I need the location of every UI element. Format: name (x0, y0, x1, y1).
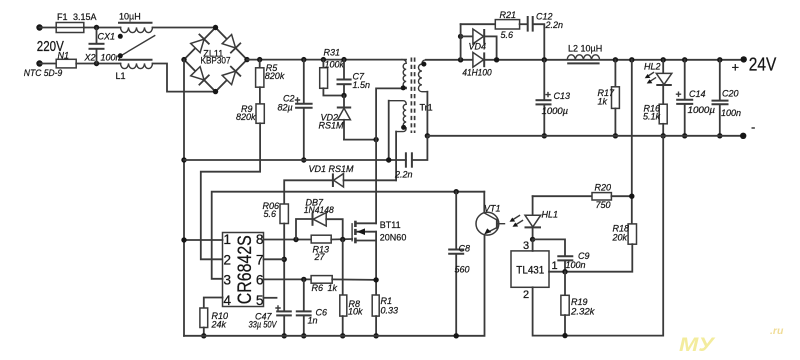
node R17 ground (613, 133, 618, 138)
svg-text:1N4148: 1N4148 (304, 205, 334, 215)
svg-text:CX1: CX1 (98, 32, 116, 42)
capacitor C12 2.2n (520, 12, 563, 60)
node pin1 on DC- vertical (181, 237, 186, 242)
svg-text:1.5n: 1.5n (353, 80, 371, 90)
regulator TL431 body (511, 251, 549, 287)
wire fuse to node (84, 27, 121, 29)
svg-text:33µ 50V: 33µ 50V (249, 320, 278, 330)
node C7 top (341, 57, 346, 62)
svg-text:C8: C8 (459, 244, 471, 254)
node X-cap top (94, 25, 99, 30)
svg-text:1: 1 (223, 232, 231, 247)
node R1 ground (373, 333, 378, 338)
wire TL431 pin1 (548, 271, 550, 273)
secondary ground rail (427, 135, 743, 137)
wire primary bottom to drain node (376, 88, 406, 139)
node HL1 cathode TL431 (530, 237, 535, 242)
wire R9 to chip pin2 (startup) (201, 123, 260, 259)
label Tr1 (420, 103, 433, 113)
wire R18 to ref node (549, 244, 632, 272)
node R17 top (613, 57, 618, 62)
svg-text:20N60: 20N60 (380, 232, 407, 242)
svg-text:C13: C13 (554, 91, 571, 101)
svg-text:1000µ: 1000µ (542, 106, 569, 116)
svg-text:МУ: МУ (679, 335, 717, 356)
svg-text:2.2n: 2.2n (545, 20, 564, 30)
svg-text:5.6: 5.6 (264, 209, 277, 219)
capacitor C20 100n (712, 60, 742, 136)
pin 4 label (223, 293, 231, 308)
node pin7 VCC (282, 257, 287, 262)
svg-text:BT11: BT11 (380, 220, 401, 230)
label 220V (37, 39, 64, 55)
capacitor CX1 X2 100n (84, 28, 121, 64)
capacitor C6 1n (296, 279, 327, 335)
bridge rectifier ZL11 KBP307 (184, 28, 247, 92)
svg-text:100n: 100n (566, 260, 586, 270)
node R20 divider (629, 194, 634, 199)
node ref divider (562, 269, 567, 274)
diode VD2 RS1M (319, 96, 352, 140)
bridge diode bottom-right (222, 67, 240, 85)
node feedback divider top (629, 57, 634, 62)
svg-text:R31: R31 (324, 48, 341, 58)
IC U1 CR6842S body (223, 233, 264, 307)
svg-text:10k: 10k (348, 307, 363, 317)
pin 1 label TL431 (552, 260, 558, 272)
resistor R19 2.32k (561, 272, 595, 336)
node R8 ground (340, 333, 345, 338)
label +24V (732, 55, 777, 75)
svg-text:R20: R20 (595, 183, 612, 193)
secondary top rail (426, 59, 744, 61)
svg-text:NTC 5D-9: NTC 5D-9 (24, 68, 63, 78)
svg-text:5.1k: 5.1k (643, 112, 661, 122)
svg-text:N1: N1 (58, 51, 70, 61)
svg-text:1k: 1k (598, 97, 608, 107)
AC input terminal bottom (36, 60, 42, 66)
capacitor C2 82u (278, 60, 313, 160)
svg-text:C14: C14 (689, 89, 706, 99)
wire VD4 left vertical (460, 24, 462, 60)
svg-text:L1: L1 (116, 71, 126, 81)
bridge node bottom (213, 89, 218, 94)
wire TL431 pin2 to ground line (533, 136, 664, 336)
wire DC- vertical from bridge (183, 60, 185, 336)
transformer Tr1 aux winding (389, 101, 407, 132)
wire R31 bottom to snubber node (323, 88, 344, 95)
resistor R10 24k (200, 308, 228, 330)
resistor R20 750 (592, 183, 632, 211)
wire secondary bottom to ground rail (426, 92, 428, 136)
diode VD4 upper (461, 29, 497, 60)
svg-text:KBP307: KBP307 (201, 56, 231, 66)
diode VD4 lower 41H100 (462, 52, 491, 77)
node C6 top (301, 277, 306, 282)
wire choke bottom to bridge (153, 64, 216, 92)
svg-text:20k: 20k (612, 233, 628, 243)
resistor R16 5.1k (643, 104, 667, 136)
node C6 ground (301, 333, 306, 338)
svg-text:R1: R1 (381, 296, 393, 306)
pin 2 label (223, 252, 231, 267)
svg-text:2.2n: 2.2n (394, 170, 413, 180)
resistor R13 27 (311, 235, 331, 262)
svg-text:24V: 24V (749, 55, 777, 75)
svg-text:-: - (751, 120, 755, 135)
bridge diode bottom-left (191, 67, 209, 85)
svg-text:Tr1: Tr1 (420, 103, 433, 113)
wire terminal to fuse (40, 27, 57, 29)
capacitor C13 1000u (536, 60, 571, 136)
svg-text:560: 560 (455, 265, 470, 275)
node X-cap bottom (94, 61, 99, 66)
wire drain node to MOSFET drain (375, 140, 377, 224)
resistor R18 20k (612, 224, 637, 245)
wire NTC to node (76, 63, 120, 65)
wire aux top to DC- rail (388, 101, 390, 160)
wire TL431 pin3 (532, 239, 534, 251)
svg-text:2.32k: 2.32k (570, 307, 595, 317)
wire R10 to ground rail (203, 328, 205, 336)
node R19 ground (562, 333, 567, 338)
wire aux bottom to VD1 anode (395, 132, 397, 181)
node snubber (341, 93, 346, 98)
node R16 ground (661, 133, 666, 138)
transformer secondary phase dot (421, 62, 426, 67)
resistor R6 1k (311, 276, 337, 293)
node VD4 left (458, 57, 463, 62)
node gate (340, 237, 345, 242)
svg-text:VT1: VT1 (484, 204, 501, 214)
resistor R06 5.6 (263, 201, 289, 224)
capacitor C47 33u 50V (249, 306, 292, 336)
output terminal minus (740, 133, 746, 139)
transformer core (411, 58, 414, 134)
diode DB7 1N4148 (296, 198, 343, 240)
output terminal plus (741, 56, 747, 62)
bridge diode top-left (191, 35, 209, 53)
svg-text:820k: 820k (236, 112, 256, 122)
capacitor C8 560 (448, 192, 470, 336)
pin 1 label (223, 232, 231, 247)
svg-text:L2 10µH: L2 10µH (568, 44, 602, 54)
svg-text:3.15A: 3.15A (73, 12, 97, 22)
node HL2 top (661, 57, 666, 62)
wire pin5 stub (223, 297, 277, 299)
node C14 ground (682, 133, 687, 138)
wire R6 to source node (332, 278, 376, 281)
transformer aux phase dot (401, 125, 406, 130)
wire terminal to NTC (40, 63, 57, 65)
svg-text:F1: F1 (57, 12, 68, 22)
node secondary ground start (425, 133, 430, 138)
fuse F1 3.15A (56, 12, 97, 33)
svg-text:1: 1 (552, 260, 558, 272)
bridge node left (181, 57, 186, 62)
pin 2 label TL431 (523, 289, 529, 301)
AC input terminal top (36, 24, 42, 30)
capacitor C9 100n (533, 239, 590, 271)
MOSFET BT11 20N60 (352, 220, 406, 243)
svg-text:R19: R19 (571, 297, 588, 307)
svg-text:VD1 RS1M: VD1 RS1M (309, 164, 355, 174)
svg-text:C20: C20 (722, 89, 739, 99)
wire R13 to gate (331, 238, 352, 241)
capacitor C7 1.5n (337, 60, 371, 96)
svg-text:R6: R6 (312, 283, 324, 293)
svg-text:0.33: 0.33 (381, 306, 399, 316)
svg-text:VD4: VD4 (469, 42, 487, 52)
resistor R5 820k (256, 60, 285, 88)
capacitor C14 1000u (676, 60, 715, 136)
svg-text:HL1: HL1 (542, 210, 559, 220)
wire pin8 to gate drive (264, 239, 312, 241)
svg-text:24k: 24k (211, 320, 227, 330)
node C47 ground (282, 333, 287, 338)
wire pin1 to DC- (184, 239, 223, 241)
resistor R1 0.33 (372, 295, 398, 316)
wire DC- rail (184, 159, 406, 161)
pin 5 label (256, 293, 264, 308)
svg-text:R21: R21 (500, 10, 517, 20)
pin 3 label (223, 273, 231, 288)
node C2 top (301, 57, 306, 62)
wire HL1 anode line (533, 195, 592, 197)
node R31 top (321, 57, 326, 62)
wire VD2 anode to drain node (344, 139, 376, 141)
pin 6 label (256, 273, 264, 288)
phototransistor VT1 (476, 192, 505, 235)
wire choke top to bridge (153, 27, 216, 29)
svg-text:41H100: 41H100 (462, 68, 491, 78)
node C8 ground (454, 333, 459, 338)
wire divider vertical (631, 60, 633, 224)
LED HL1 (525, 196, 559, 239)
primary ground rail (184, 234, 485, 336)
bridge node right (244, 57, 249, 62)
node C8 top (454, 189, 459, 194)
LED HL2 (644, 60, 672, 104)
thermistor N1 NTC 5D-9 (24, 51, 76, 79)
svg-text:2: 2 (223, 252, 231, 267)
svg-text:7: 7 (256, 252, 264, 267)
node drain top (373, 137, 378, 142)
capacitor Y 2.2n (394, 136, 427, 180)
resistor R17 1k (598, 60, 620, 136)
svg-text:TL431: TL431 (516, 264, 544, 276)
svg-text:100n: 100n (721, 108, 741, 118)
resistor R21 5.6 (461, 10, 520, 40)
wire R8 to ground (342, 316, 344, 336)
wire pin6 to sense (264, 278, 312, 280)
FB rail wire pin3 (212, 192, 485, 279)
svg-text:1000µ: 1000µ (688, 105, 716, 115)
node C14 top (682, 57, 687, 62)
inductor L2 10uH (567, 44, 602, 64)
svg-text:HL2: HL2 (644, 62, 661, 72)
resistor R8 10k (340, 295, 363, 317)
node C2 bottom (301, 157, 306, 162)
transformer Tr1 primary winding (402, 60, 406, 89)
node aux return on DC- rail (386, 157, 391, 162)
node R5 top (257, 57, 262, 62)
svg-text:4: 4 (223, 293, 231, 308)
bridge node top (213, 25, 218, 30)
svg-text:3: 3 (523, 240, 529, 252)
pin 8 label (256, 232, 264, 247)
bridge diode top-right (222, 35, 240, 53)
choke L1 10uH common-mode (116, 12, 155, 82)
svg-text:1n: 1n (308, 316, 318, 326)
node VD4 right (494, 57, 499, 62)
svg-text:820k: 820k (265, 71, 285, 81)
node R10 ground (201, 333, 206, 338)
svg-text:5: 5 (256, 293, 264, 308)
wire pin7 to VCC node (264, 258, 285, 260)
node C13 ground (542, 133, 547, 138)
wire DC+ rail bridge to transformer (247, 59, 406, 61)
label minus (751, 120, 755, 135)
svg-text:2: 2 (523, 289, 529, 301)
node R1 top (373, 277, 378, 282)
node DC- rail branch (181, 157, 186, 162)
node C13 top (542, 57, 547, 62)
svg-text:3: 3 (223, 273, 231, 288)
svg-text:100n: 100n (101, 53, 121, 63)
wire R8 branch vertical (342, 240, 344, 296)
svg-text:X2: X2 (84, 53, 96, 63)
svg-text:.ru: .ru (770, 325, 784, 337)
svg-text:CR6842S: CR6842S (235, 235, 256, 304)
svg-text:5.6: 5.6 (501, 30, 514, 40)
svg-text:750: 750 (596, 200, 611, 210)
svg-text:27: 27 (314, 252, 326, 262)
svg-text:RS1M: RS1M (319, 121, 345, 131)
svg-text:82µ: 82µ (278, 103, 293, 113)
opto light arrows HL1 (510, 216, 523, 227)
wire pin4 to R10 (204, 298, 223, 309)
wire R5 to R9 (259, 87, 261, 104)
node C20 ground (717, 133, 722, 138)
pin 3 label TL431 (523, 240, 529, 252)
diode VD1 RS1M (284, 164, 396, 204)
wire R1 to ground (375, 316, 377, 336)
wire MOSFET source down (375, 241, 377, 296)
svg-text:100k: 100k (325, 60, 345, 70)
svg-text:+: + (732, 60, 740, 75)
watermark MY (679, 325, 784, 356)
resistor R31 100k (320, 48, 345, 89)
wire R06 to VCC node (283, 224, 285, 312)
pin 7 label (256, 252, 264, 267)
node C20 top (717, 57, 722, 62)
svg-text:10µH: 10µH (119, 12, 141, 22)
node DB7 left (293, 237, 298, 242)
node VD4 branch left (458, 34, 463, 39)
transformer Tr1 secondary winding (418, 60, 427, 92)
svg-text:1k: 1k (328, 283, 338, 293)
transformer primary phase dot (401, 85, 406, 90)
resistor R9 820k (236, 104, 264, 123)
